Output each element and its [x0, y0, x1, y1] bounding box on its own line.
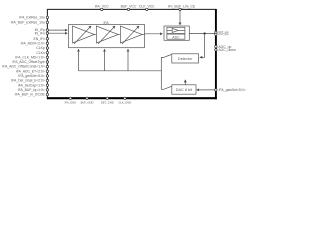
left pin IFA_ADC_OffsetConst	[46, 65, 48, 67]
thick right edge	[215, 9, 217, 99]
left pin INp	[46, 29, 48, 31]
svg-text:IFA_BUF_in_OCOE: IFA_BUF_in_OCOE	[15, 93, 46, 97]
wire ADC out to OUT pins	[189, 33, 215, 35]
svg-text:Detector: Detector	[178, 57, 193, 61]
svg-text:IFA_BUF_ExtRes_10u: IFA_BUF_ExtRes_10u	[11, 21, 45, 25]
svg-text:IFA_SetCap<1:0>: IFA_SetCap<1:0>	[18, 83, 45, 87]
svg-text:IFA_BUF_Iq<1:0>: IFA_BUF_Iq<1:0>	[18, 88, 45, 92]
svg-text:DET_GND: DET_GND	[101, 101, 114, 105]
svg-text:AGC_down: AGC_down	[218, 48, 235, 52]
right pin IFA_gainSel	[215, 89, 217, 91]
switch S1 to detector	[164, 55, 172, 58]
bias arrow 1	[78, 49, 80, 71]
wire down to detector	[200, 34, 205, 58]
svg-text:OUT_bpn: OUT_bpn	[218, 33, 229, 36]
bias bus wire	[79, 70, 162, 72]
svg-text:IFA_ADC_ET<2:0>: IFA_ADC_ET<2:0>	[16, 69, 45, 73]
bottom pin IFA_GND	[69, 97, 71, 99]
left pin IFA_BUF_in_OCOE	[46, 93, 48, 95]
right pin AGC_down	[215, 49, 217, 51]
top pin BUF_VCC	[127, 8, 129, 10]
wire A3 to box edge	[142, 34, 144, 36]
bias arrow 2	[104, 49, 106, 71]
bias arrow 3	[127, 49, 129, 71]
wire input INp	[48, 29, 67, 31]
wire gainSel into DAC	[197, 89, 215, 91]
left pin CLKp	[46, 47, 48, 49]
svg-text:IFx_BUF_Lim_CE: IFx_BUF_Lim_CE	[168, 5, 196, 9]
DAC block	[172, 85, 196, 94]
svg-text:IFA_GND: IFA_GND	[65, 101, 77, 105]
svg-text:ADC: ADC	[172, 35, 180, 39]
wire bus vertical	[161, 57, 163, 89]
switch S2 stub	[161, 88, 163, 90]
left pin IFA_Del_smpl_b	[46, 79, 48, 81]
junction	[204, 32, 206, 34]
svg-text:IFA_MDIV<2:0>: IFA_MDIV<2:0>	[21, 41, 45, 45]
svg-text:IN_IFn: IN_IFn	[35, 31, 45, 35]
wire CE down to ADC	[179, 10, 181, 25]
inner IFA box	[69, 25, 145, 48]
amplifier A1	[73, 26, 95, 44]
left pin IFA_CLK_MD	[46, 56, 48, 58]
ADC block U2	[164, 26, 189, 40]
left pin EN_IFx	[46, 38, 48, 40]
switch S2 to DAC	[164, 86, 172, 89]
right pin AGC_up	[215, 45, 217, 47]
left pin IFA_genDel	[46, 75, 48, 77]
svg-text:IFA_ADC_OffsetConst<1:0>: IFA_ADC_OffsetConst<1:0>	[2, 65, 45, 69]
svg-text:CLK_GND: CLK_GND	[118, 101, 131, 105]
wire input INn	[48, 32, 67, 34]
svg-text:IFA: IFA	[103, 21, 109, 25]
svg-text:IFA_CLK_MD<1:0>: IFA_CLK_MD<1:0>	[15, 55, 44, 59]
svg-text:BUF_VCC: BUF_VCC	[121, 5, 137, 9]
left pin IFA_ADC_OffsetType	[46, 61, 48, 63]
top pin IFx_BUF_Lim_CE	[179, 8, 181, 10]
svg-text:CLK_VCC: CLK_VCC	[139, 5, 155, 9]
left pin IFA_ADC_ET	[46, 70, 48, 72]
svg-text:IFA_gainSel<5:0>: IFA_gainSel<5:0>	[219, 88, 246, 92]
svg-text:DAC 6 bit: DAC 6 bit	[176, 88, 193, 92]
bottom pin CLK_GND	[124, 97, 126, 99]
left pin CLKn	[46, 51, 48, 53]
top pin IFA_VCC	[101, 8, 103, 10]
right pin OUT_bpn	[215, 33, 217, 35]
left pin INn	[46, 32, 48, 34]
thick bottom edge	[47, 97, 217, 99]
svg-text:IFA_genDel<5:0>: IFA_genDel<5:0>	[18, 74, 44, 78]
top pin CLK_VCC	[146, 8, 148, 10]
right pin OUT_pwr	[215, 31, 217, 33]
left pin IFA_BUF_ExtRes_10u	[46, 21, 48, 23]
left pin IFA_MDIV	[46, 42, 48, 44]
svg-text:IFA_Del_smpl_b<2:0>: IFA_Del_smpl_b<2:0>	[11, 79, 45, 83]
wire IFA out to ADC	[145, 33, 163, 35]
wire A1 to A2	[94, 34, 96, 36]
svg-text:IFA_VCC: IFA_VCC	[95, 5, 110, 9]
bottom pin BUF_GND	[86, 97, 88, 99]
wire A2 to A3	[118, 34, 120, 36]
svg-text:CLKn: CLKn	[36, 51, 45, 55]
left pin IFA_BUF_Iq	[46, 89, 48, 91]
outer block boundary	[47, 9, 217, 99]
bottom pin DET_GND	[106, 97, 108, 99]
amplifier A3	[120, 26, 142, 44]
svg-text:IFA_ExtRes_10u: IFA_ExtRes_10u	[19, 16, 45, 20]
left pin IFA_ExtRes_10u	[46, 16, 48, 18]
svg-text:CLKp: CLKp	[36, 46, 45, 50]
svg-text:EN_IFx: EN_IFx	[33, 37, 45, 41]
svg-text:IFA_ADC_OffsetType: IFA_ADC_OffsetType	[12, 60, 44, 64]
svg-text:BUF_GND: BUF_GND	[81, 101, 94, 105]
DAC output up arrow	[184, 80, 186, 85]
left pin IFA_SetCap	[46, 84, 48, 86]
Detector block	[172, 54, 199, 63]
amplifier A2	[96, 26, 118, 44]
